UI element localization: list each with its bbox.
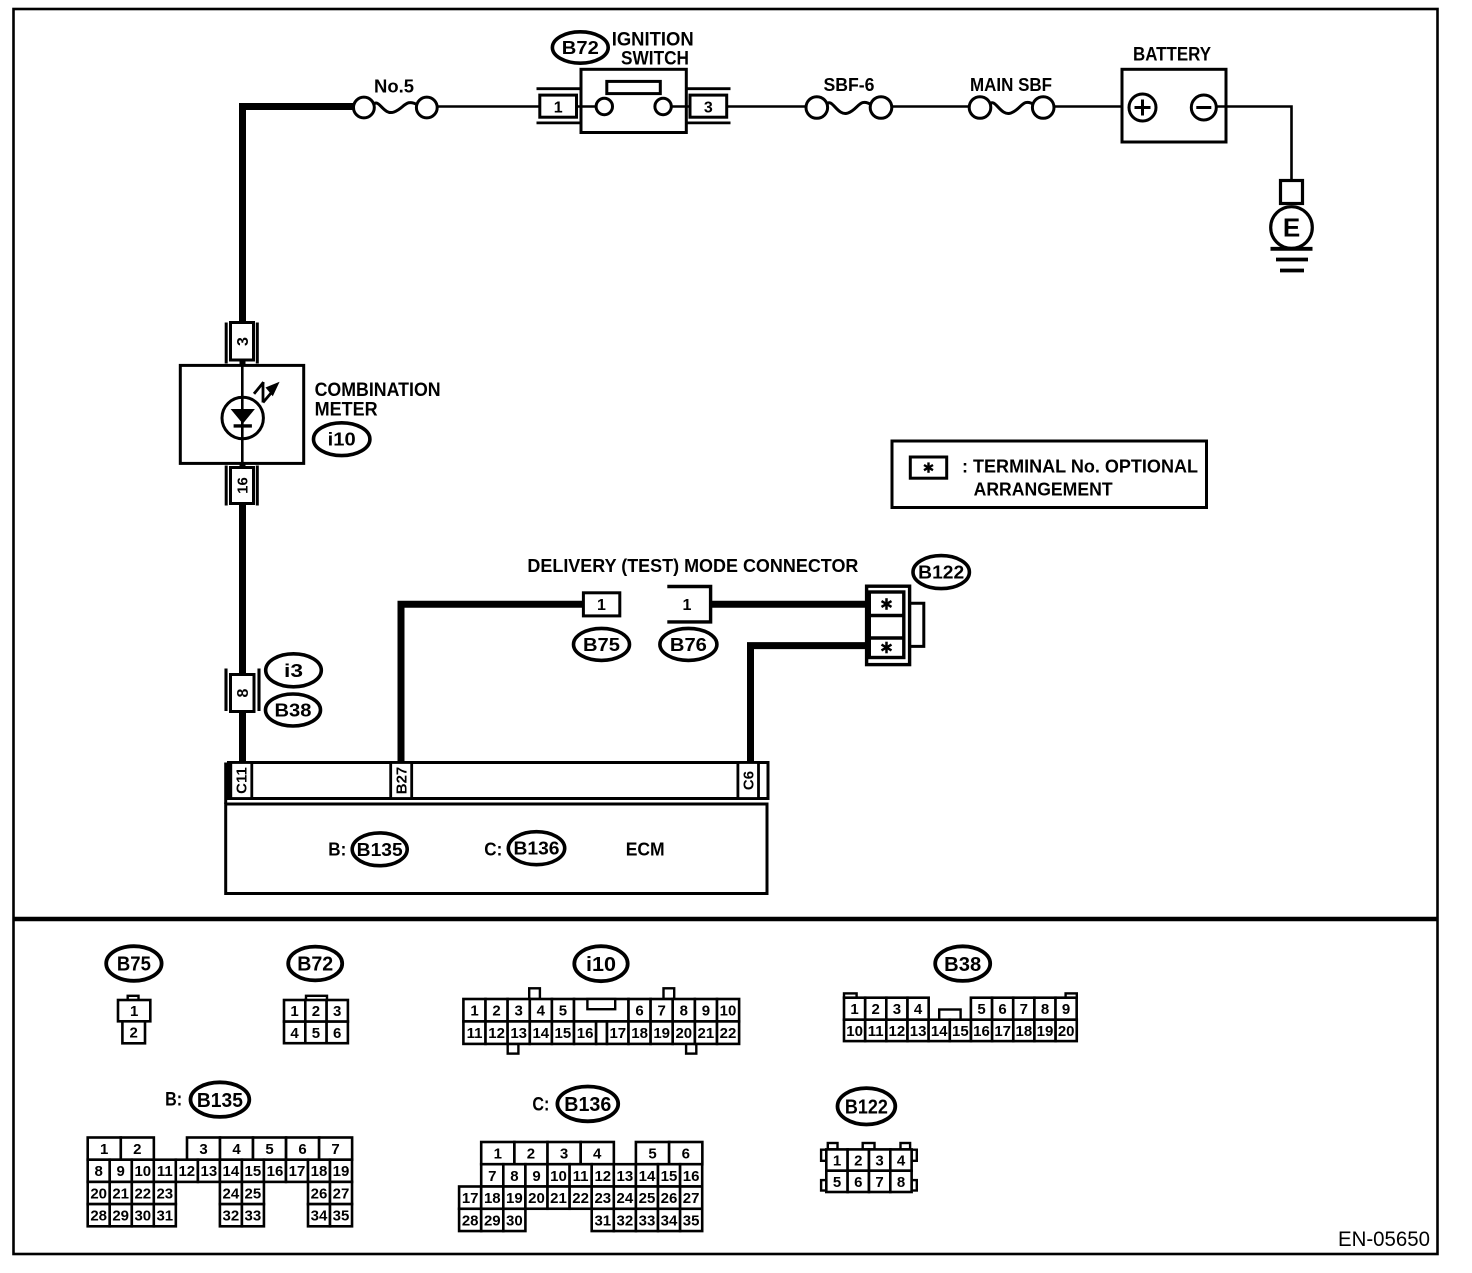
svg-text:18: 18 — [484, 1190, 501, 1207]
svg-text:B136: B136 — [564, 1094, 611, 1116]
svg-text:25: 25 — [245, 1185, 262, 1202]
connector i10 pinout — [529, 988, 540, 999]
wire: SBF-6 to MAIN SBF — [892, 105, 969, 108]
svg-text:20: 20 — [528, 1190, 545, 1207]
svg-text:30: 30 — [134, 1208, 151, 1225]
svg-text:20: 20 — [1058, 1023, 1075, 1040]
wire: ignition switch pin 3 to fuse SBF-6 — [727, 105, 806, 108]
svg-text:11: 11 — [157, 1163, 173, 1180]
svg-text:B135: B135 — [357, 840, 403, 860]
connector pin 1 (B75) — [583, 593, 619, 616]
svg-text:1: 1 — [494, 1146, 502, 1163]
svg-text:10: 10 — [134, 1163, 151, 1180]
svg-text:i10: i10 — [328, 430, 356, 450]
svg-text:6: 6 — [298, 1141, 306, 1158]
svg-text:2: 2 — [854, 1153, 862, 1170]
connector B136 pinout — [481, 1142, 514, 1164]
svg-text:B76: B76 — [670, 635, 707, 655]
svg-text:8: 8 — [235, 688, 252, 697]
connector pin 8 (i3/B38) — [224, 669, 227, 712]
svg-text:3: 3 — [875, 1153, 883, 1170]
svg-text:i3: i3 — [284, 661, 303, 681]
svg-text:19: 19 — [653, 1025, 670, 1042]
svg-text:25: 25 — [639, 1190, 656, 1207]
svg-text:8: 8 — [510, 1168, 518, 1185]
svg-text:B:: B: — [328, 838, 346, 859]
svg-text:31: 31 — [594, 1212, 611, 1229]
svg-text:1: 1 — [833, 1153, 841, 1170]
svg-text:9: 9 — [532, 1168, 540, 1185]
wire: MAIN SBF to battery + — [1054, 105, 1129, 108]
svg-text:35: 35 — [683, 1212, 700, 1229]
svg-text:11: 11 — [868, 1023, 884, 1040]
svg-text:ECM: ECM — [626, 838, 665, 859]
svg-text:13: 13 — [510, 1025, 527, 1042]
fuse MAIN SBF — [989, 102, 1035, 113]
svg-text:IGNITION: IGNITION — [612, 30, 694, 51]
svg-text:34: 34 — [661, 1212, 678, 1229]
svg-text:C:: C: — [532, 1094, 549, 1115]
svg-text:12: 12 — [488, 1025, 505, 1042]
svg-text:14: 14 — [223, 1163, 240, 1180]
wire: battery - to ground E — [1216, 107, 1291, 181]
svg-text:28: 28 — [90, 1208, 107, 1225]
svg-text:7: 7 — [658, 1003, 666, 1020]
note box: TERMINAL No. OPTIONAL ARRANGEMENT — [892, 441, 1207, 508]
connector B72 pinout — [306, 996, 327, 1000]
fuse SBF-6 — [826, 102, 872, 113]
svg-text:32: 32 — [223, 1208, 240, 1225]
svg-text:: TERMINAL No. OPTIONAL: : TERMINAL No. OPTIONAL — [962, 456, 1198, 477]
svg-text:12: 12 — [889, 1023, 906, 1040]
connector B122 pinout — [828, 1143, 838, 1149]
svg-text:E: E — [1283, 213, 1300, 243]
svg-text:13: 13 — [201, 1163, 218, 1180]
svg-text:3: 3 — [199, 1141, 207, 1158]
svg-text:16: 16 — [973, 1023, 990, 1040]
label B38 ellipse — [266, 694, 321, 726]
light emission arrow — [254, 382, 264, 394]
svg-text:B122: B122 — [845, 1097, 888, 1119]
svg-text:32: 32 — [617, 1212, 634, 1229]
svg-text:1: 1 — [470, 1003, 478, 1020]
svg-text:DELIVERY (TEST) MODE CONNECTOR: DELIVERY (TEST) MODE CONNECTOR — [527, 555, 858, 576]
svg-text:4: 4 — [232, 1141, 241, 1158]
svg-text:7: 7 — [331, 1141, 339, 1158]
svg-text:10: 10 — [720, 1003, 737, 1020]
svg-text:10: 10 — [550, 1168, 567, 1185]
svg-text:22: 22 — [572, 1190, 589, 1207]
svg-text:9: 9 — [702, 1003, 710, 1020]
svg-text:10: 10 — [846, 1023, 863, 1040]
label B135 ellipse (ECM) — [352, 833, 407, 866]
svg-text:33: 33 — [639, 1212, 656, 1229]
svg-text:COMBINATION: COMBINATION — [315, 380, 441, 401]
svg-text:2: 2 — [133, 1141, 141, 1158]
svg-text:34: 34 — [311, 1208, 328, 1225]
connector pin 16 (combination meter i10) — [225, 466, 228, 506]
svg-text:1: 1 — [597, 597, 606, 614]
svg-text:14: 14 — [639, 1168, 656, 1185]
svg-text:B:: B: — [165, 1090, 182, 1111]
svg-text:7: 7 — [875, 1174, 883, 1191]
svg-text:19: 19 — [1037, 1023, 1054, 1040]
svg-text:22: 22 — [134, 1185, 151, 1202]
svg-text:1: 1 — [290, 1003, 298, 1020]
svg-text:23: 23 — [594, 1190, 611, 1207]
ground terminal E — [1281, 181, 1303, 204]
battery BT1 — [1122, 69, 1226, 142]
svg-text:17: 17 — [289, 1163, 306, 1180]
label B76 ellipse — [660, 628, 717, 660]
svg-text:29: 29 — [484, 1212, 501, 1229]
svg-text:26: 26 — [661, 1190, 678, 1207]
wire: fuse No.5 to ignition switch pin 1 — [437, 105, 541, 108]
svg-text:1: 1 — [850, 1001, 858, 1018]
section divider line — [13, 917, 1437, 922]
svg-text:6: 6 — [682, 1146, 690, 1163]
svg-text:16: 16 — [683, 1168, 700, 1185]
label i10 ellipse (pinout) — [574, 946, 627, 981]
ECM pin C6 — [738, 763, 759, 799]
label B72 ellipse (pinout) — [288, 947, 342, 981]
label B72 ellipse — [552, 32, 608, 63]
svg-text:17: 17 — [609, 1025, 626, 1042]
svg-text:21: 21 — [698, 1025, 715, 1042]
ECM pin C11 — [231, 763, 252, 799]
svg-text:19: 19 — [333, 1163, 350, 1180]
combination meter box i10 — [180, 365, 303, 463]
svg-text:4: 4 — [593, 1146, 602, 1163]
svg-text:No.5: No.5 — [374, 77, 414, 97]
ECM pin B27 — [391, 763, 412, 799]
wire stub meter box to pin16 — [240, 463, 246, 467]
svg-text:ARRANGEMENT: ARRANGEMENT — [974, 479, 1114, 500]
svg-text:4: 4 — [914, 1001, 923, 1018]
connector B38 pinout — [844, 993, 857, 997]
svg-text:15: 15 — [555, 1025, 572, 1042]
ECM connector bar — [229, 763, 769, 799]
wire: ECM B27 up and right to B75 pin 1 (thick) — [401, 604, 583, 762]
svg-text:17: 17 — [462, 1190, 479, 1207]
svg-text:8: 8 — [680, 1003, 688, 1020]
svg-text:15: 15 — [661, 1168, 678, 1185]
svg-text:24: 24 — [617, 1190, 634, 1207]
svg-text:3: 3 — [560, 1146, 568, 1163]
svg-text:13: 13 — [617, 1168, 634, 1185]
svg-text:B136: B136 — [514, 839, 560, 859]
svg-text:C11: C11 — [234, 767, 251, 794]
svg-text:8: 8 — [897, 1174, 905, 1191]
svg-text:11: 11 — [467, 1025, 483, 1042]
svg-text:4: 4 — [897, 1153, 906, 1170]
svg-text:21: 21 — [550, 1190, 567, 1207]
svg-text:26: 26 — [311, 1185, 328, 1202]
svg-text:15: 15 — [952, 1023, 969, 1040]
svg-text:B38: B38 — [944, 954, 981, 976]
svg-text:2: 2 — [872, 1001, 880, 1018]
wire: pin 8 down to ECM C11 (thick) — [239, 712, 246, 763]
connector B75 pinout — [128, 996, 139, 1000]
ignition switch body U:B72 — [581, 69, 686, 132]
lamp LED symbol — [222, 397, 263, 438]
svg-text:8: 8 — [95, 1163, 103, 1180]
svg-text:18: 18 — [1016, 1023, 1033, 1040]
svg-text:14: 14 — [532, 1025, 549, 1042]
connector pin 3 (ignition switch B72) — [686, 87, 731, 90]
ground symbol — [1271, 247, 1313, 251]
pin * lower (B122) — [882, 642, 892, 654]
wire: combination meter pin3 up to fuse No.5 (thick) — [243, 107, 354, 323]
wire: B122 lower * to ECM C6 (thick) — [751, 646, 867, 763]
label B75 ellipse — [574, 628, 630, 660]
fuse No.5 — [373, 103, 418, 113]
svg-text:12: 12 — [178, 1163, 195, 1180]
label B38 ellipse (pinout) — [935, 946, 990, 981]
svg-text:i10: i10 — [586, 954, 616, 976]
wire: meter pin 16 down to joint connector pin 8 (thick) — [239, 504, 246, 675]
svg-text:14: 14 — [931, 1023, 948, 1040]
svg-text:5: 5 — [648, 1146, 656, 1163]
svg-text:7: 7 — [488, 1168, 496, 1185]
svg-text:C:: C: — [484, 838, 502, 859]
svg-text:31: 31 — [156, 1208, 173, 1225]
svg-text:B72: B72 — [562, 38, 599, 58]
svg-text:C6: C6 — [740, 771, 757, 790]
label B122 ellipse — [913, 556, 969, 589]
svg-text:MAIN SBF: MAIN SBF — [970, 75, 1052, 95]
svg-text:29: 29 — [112, 1208, 129, 1225]
svg-text:28: 28 — [462, 1212, 479, 1229]
label i3 ellipse — [266, 654, 322, 687]
svg-text:18: 18 — [311, 1163, 328, 1180]
svg-text:3: 3 — [893, 1001, 901, 1018]
svg-text:B38: B38 — [275, 701, 312, 721]
connector pin 3 (combination meter i10) — [225, 323, 228, 364]
svg-text:3: 3 — [515, 1003, 523, 1020]
svg-text:4: 4 — [537, 1003, 546, 1020]
battery + terminal — [1129, 94, 1156, 121]
svg-text:27: 27 — [333, 1185, 350, 1202]
wire: B76 pin 1 to B122 (thick) — [711, 601, 867, 608]
svg-text:22: 22 — [720, 1025, 737, 1042]
svg-text:33: 33 — [245, 1208, 262, 1225]
svg-text:21: 21 — [112, 1185, 129, 1202]
svg-text:EN-05650: EN-05650 — [1338, 1228, 1430, 1251]
svg-text:2: 2 — [492, 1003, 500, 1020]
svg-text:16: 16 — [577, 1025, 594, 1042]
svg-text:1: 1 — [100, 1141, 108, 1158]
svg-text:2: 2 — [130, 1025, 138, 1042]
svg-text:23: 23 — [156, 1185, 173, 1202]
connector pin 1 (ignition switch B72) — [537, 87, 582, 90]
svg-text:SWITCH: SWITCH — [621, 49, 689, 70]
svg-text:2: 2 — [312, 1003, 320, 1020]
svg-text:5: 5 — [312, 1025, 320, 1042]
svg-text:20: 20 — [90, 1185, 107, 1202]
svg-text:9: 9 — [117, 1163, 125, 1180]
svg-text:3: 3 — [704, 99, 713, 116]
label B122 ellipse (pinout) — [838, 1088, 896, 1124]
svg-text:3: 3 — [235, 337, 252, 346]
svg-text:1: 1 — [554, 99, 563, 116]
svg-text:35: 35 — [333, 1208, 350, 1225]
svg-text:4: 4 — [290, 1025, 299, 1042]
svg-text:17: 17 — [994, 1023, 1011, 1040]
svg-text:3: 3 — [333, 1003, 341, 1020]
svg-text:METER: METER — [315, 400, 378, 421]
connector B122 body — [867, 586, 910, 664]
svg-text:B135: B135 — [197, 1090, 243, 1112]
svg-text:6: 6 — [333, 1025, 341, 1042]
svg-text:B122: B122 — [918, 563, 964, 583]
connector pin 1 (B76) — [667, 587, 710, 622]
svg-text:16: 16 — [234, 477, 251, 494]
svg-text:B75: B75 — [117, 954, 151, 976]
label i10 ellipse — [314, 423, 370, 456]
svg-text:27: 27 — [683, 1190, 700, 1207]
svg-text:1: 1 — [683, 597, 692, 614]
svg-text:B75: B75 — [583, 635, 620, 655]
svg-text:B72: B72 — [297, 954, 333, 976]
svg-text:12: 12 — [594, 1168, 611, 1185]
svg-text:1: 1 — [130, 1003, 138, 1020]
svg-text:SBF-6: SBF-6 — [824, 75, 875, 95]
svg-text:5: 5 — [559, 1003, 567, 1020]
svg-text:15: 15 — [245, 1163, 262, 1180]
wire stub pin3 to meter box — [240, 360, 246, 366]
svg-text:9: 9 — [1062, 1001, 1070, 1018]
svg-text:5: 5 — [265, 1141, 273, 1158]
pin * upper (B122) — [882, 598, 892, 610]
svg-text:BATTERY: BATTERY — [1133, 45, 1211, 66]
svg-text:8: 8 — [1041, 1001, 1049, 1018]
battery - terminal — [1191, 95, 1216, 120]
svg-text:19: 19 — [506, 1190, 523, 1207]
ECM box U:ECM — [224, 763, 227, 805]
svg-text:5: 5 — [977, 1001, 985, 1018]
connector B135 pinout — [88, 1138, 121, 1160]
svg-text:30: 30 — [506, 1212, 523, 1229]
svg-text:2: 2 — [527, 1146, 535, 1163]
label B136 ellipse (ECM) — [508, 832, 564, 865]
svg-text:6: 6 — [635, 1003, 643, 1020]
B122 right key tab — [910, 603, 924, 646]
svg-text:7: 7 — [1020, 1001, 1028, 1018]
svg-text:11: 11 — [573, 1168, 589, 1185]
svg-text:20: 20 — [675, 1025, 692, 1042]
svg-text:24: 24 — [223, 1185, 240, 1202]
svg-text:16: 16 — [267, 1163, 284, 1180]
svg-text:5: 5 — [833, 1174, 841, 1191]
svg-text:B27: B27 — [394, 767, 411, 795]
svg-text:6: 6 — [998, 1001, 1006, 1018]
svg-text:6: 6 — [854, 1174, 862, 1191]
svg-text:13: 13 — [910, 1023, 927, 1040]
label B75 ellipse (pinout) — [106, 946, 161, 981]
svg-text:18: 18 — [631, 1025, 648, 1042]
